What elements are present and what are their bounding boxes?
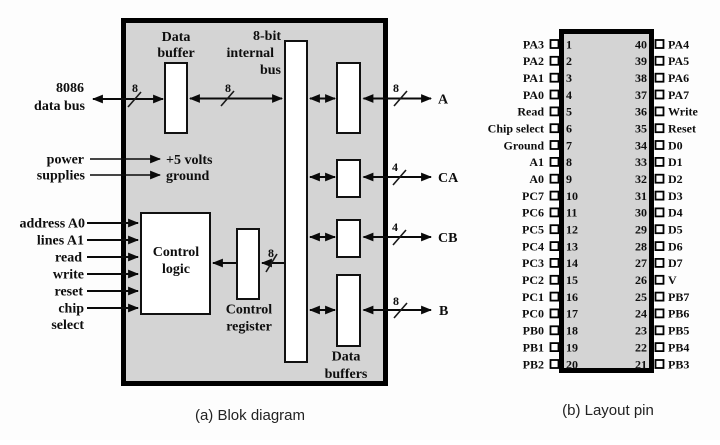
svg-text:3: 3 [566,71,572,85]
pin 16 (PC1) left side [522,290,578,304]
pin 34 (D0) right side [635,138,683,152]
svg-text:(b) Layout pin: (b) Layout pin [562,402,654,419]
wire: address A0 input arrow [87,222,138,224]
pin 32 (D2) right side [635,172,683,186]
svg-text:PA4: PA4 [668,37,689,51]
svg-text:address A0: address A0 [20,217,85,232]
port CB buffer box [337,220,360,257]
label: 8086 data bus [34,81,86,114]
svg-text:5: 5 [566,105,572,119]
svg-text:Chip select: Chip select [488,122,544,136]
wire: data buffer to internal bus (double arrow) [190,98,282,100]
pin 3 (PA1) left side [523,71,572,85]
svg-text:chip: chip [58,302,84,317]
svg-text:8: 8 [393,81,399,95]
svg-text:12: 12 [566,223,578,237]
svg-text:PB4: PB4 [668,340,689,354]
svg-text:8086: 8086 [56,81,84,96]
svg-text:PC6: PC6 [522,206,544,220]
svg-text:Control: Control [153,245,200,260]
svg-text:Data: Data [332,350,361,365]
data buffer box [165,63,187,133]
svg-text:PA0: PA0 [523,88,544,102]
pin 39 (PA5) right side [635,54,689,68]
svg-text:V: V [668,273,677,287]
svg-text:34: 34 [635,138,647,152]
svg-text:1: 1 [566,37,572,51]
port CA buffer box [337,160,360,197]
svg-text:20: 20 [566,357,578,371]
pin 4 (PA0) left side [523,88,572,102]
bus-width slash 8 (8086 side) [128,81,141,107]
svg-text:24: 24 [635,307,647,321]
pin 15 (PC2) left side [522,273,578,287]
svg-text:PB3: PB3 [668,357,689,371]
svg-text:CB: CB [438,231,457,246]
svg-text:Read: Read [517,105,544,119]
svg-text:D0: D0 [668,138,683,152]
control register box [237,229,259,299]
svg-text:8: 8 [393,294,399,308]
svg-text:PA3: PA3 [523,37,544,51]
svg-text:8-bit: 8-bit [253,29,281,44]
svg-text:data bus: data bus [34,99,86,114]
svg-text:PC2: PC2 [522,273,544,287]
svg-text:buffers: buffers [325,367,368,382]
svg-text:4: 4 [392,220,398,234]
pin 35 (Reset) right side [635,122,696,136]
svg-text:PA7: PA7 [668,88,689,102]
svg-text:31: 31 [635,189,647,203]
svg-text:PB1: PB1 [523,340,544,354]
svg-text:PA1: PA1 [523,71,544,85]
bus-width slash 8 (port B) [393,294,407,318]
svg-text:15: 15 [566,273,578,287]
svg-text:register: register [226,320,272,335]
svg-text:10: 10 [566,189,578,203]
svg-text:D6: D6 [668,239,683,253]
svg-text:PA5: PA5 [668,54,689,68]
svg-text:8: 8 [566,155,572,169]
wire: port CB output arrow [364,236,432,238]
svg-text:CA: CA [438,171,459,186]
wire: +5 volts arrow [90,158,160,160]
svg-text:write: write [53,268,84,283]
svg-text:PC0: PC0 [522,307,544,321]
svg-text:D2: D2 [668,172,683,186]
svg-text:26: 26 [635,273,647,287]
port B buffer box [337,275,360,346]
pin 11 (PC6) left side [522,206,577,220]
wire: internal bus to CA buffer (double arrow) [310,176,335,178]
pin 2 (PA2) left side [523,54,572,68]
svg-text:A0: A0 [529,172,544,186]
svg-text:21: 21 [635,357,647,371]
pin 19 (PB1) left side [523,340,578,354]
label: Control register [226,303,273,335]
pin 28 (D6) right side [635,239,683,253]
pin 5 (Read) left side [517,105,572,119]
svg-text:17: 17 [566,307,578,321]
svg-text:Control: Control [226,303,273,318]
chip body (pin layout) [562,32,652,371]
pin 25 (PB7) right side [635,290,689,304]
pin 30 (D4) right side [635,206,683,220]
svg-text:logic: logic [162,262,190,277]
svg-text:8: 8 [225,81,231,95]
svg-text:internal: internal [227,46,275,61]
svg-text:reset: reset [55,285,84,300]
pin 14 (PC3) left side [522,256,578,270]
wire: reset input arrow [87,290,138,292]
svg-text:30: 30 [635,206,647,220]
svg-text:bus: bus [260,63,282,78]
8-bit internal bus box [285,41,307,362]
wire: 8086 data bus to data buffer (double arrow) [93,98,163,100]
svg-text:33: 33 [635,155,647,169]
label: Data buffer [157,30,194,61]
pin 38 (PA6) right side [635,71,689,85]
pin 27 (D7) right side [635,256,683,270]
svg-text:4: 4 [566,88,572,102]
wire: lines A1 input arrow [87,239,138,241]
pin 1 (PA3) left side [523,37,572,51]
svg-text:power: power [47,153,84,168]
svg-text:+5 volts: +5 volts [166,153,213,168]
pin 37 (PA7) right side [635,88,689,102]
svg-text:PC1: PC1 [522,290,544,304]
svg-text:8: 8 [132,81,138,95]
outer block-diagram box [124,21,386,384]
wire: internal bus to port B buffer (double arrow) [310,309,335,311]
wire: read input arrow [87,256,138,258]
svg-text:Write: Write [668,105,698,119]
svg-text:PA6: PA6 [668,71,689,85]
pin 6 (Chip select) left side [488,122,572,136]
svg-text:22: 22 [635,340,647,354]
pin 8 (A1) left side [529,155,572,169]
wire: internal bus to control register [262,262,284,264]
wire: internal bus to CB buffer (double arrow) [310,236,335,238]
label: power supplies [37,153,86,184]
svg-text:PB0: PB0 [523,324,544,338]
svg-text:16: 16 [566,290,578,304]
svg-text:(a) Blok diagram: (a) Blok diagram [195,407,305,424]
svg-text:A1: A1 [529,155,544,169]
label: 8-bit internal bus [227,29,282,78]
svg-text:D1: D1 [668,155,683,169]
pin 22 (PB4) right side [635,340,689,354]
pin 40 (PA4) right side [635,37,689,51]
pin 13 (PC4) left side [522,239,578,253]
svg-text:11: 11 [566,206,577,220]
svg-text:PA2: PA2 [523,54,544,68]
svg-text:25: 25 [635,290,647,304]
svg-text:29: 29 [635,223,647,237]
wire: port CA output arrow [364,176,432,178]
svg-text:Ground: Ground [504,138,545,152]
svg-text:supplies: supplies [37,169,86,184]
pin 23 (PB5) right side [635,324,689,338]
svg-text:40: 40 [635,37,647,51]
svg-text:23: 23 [635,324,647,338]
svg-text:9: 9 [566,172,572,186]
bus-width slash 8 (buffer side) [221,81,234,106]
pin 7 (Ground) left side [504,138,572,152]
label: Control logic [153,245,200,277]
port A buffer box [337,63,360,133]
bus-width slash 4 (port CA) [392,160,406,185]
svg-text:36: 36 [635,105,647,119]
svg-text:6: 6 [566,122,572,136]
pin 17 (PC0) left side [522,307,578,321]
svg-text:4: 4 [392,160,398,174]
svg-text:D5: D5 [668,223,683,237]
svg-text:B: B [439,304,448,319]
svg-text:37: 37 [635,88,647,102]
svg-text:32: 32 [635,172,647,186]
svg-text:27: 27 [635,256,647,270]
wire: internal bus to port A buffer (double arrow) [310,98,335,100]
control logic box [141,213,210,314]
svg-text:Data: Data [162,30,191,45]
bus-width slash 4 (port CB) [392,220,406,245]
svg-text:38: 38 [635,71,647,85]
svg-text:PC7: PC7 [522,189,544,203]
svg-text:PC4: PC4 [522,239,544,253]
svg-text:PB2: PB2 [523,357,544,371]
label: chip select [51,302,84,334]
svg-text:select: select [51,318,84,333]
svg-text:PC5: PC5 [522,223,544,237]
wire: ground arrow [90,174,160,176]
pin 9 (A0) left side [529,172,572,186]
svg-text:13: 13 [566,239,578,253]
wire: chip select input arrow [87,307,138,309]
svg-text:39: 39 [635,54,647,68]
svg-text:PB7: PB7 [668,290,689,304]
svg-text:7: 7 [566,138,572,152]
pin 12 (PC5) left side [522,223,578,237]
svg-text:lines A1: lines A1 [37,234,84,249]
pin 33 (D1) right side [635,155,683,169]
svg-text:14: 14 [566,256,578,270]
pin 29 (D5) right side [635,223,683,237]
svg-text:PB5: PB5 [668,324,689,338]
pin 10 (PC7) left side [522,189,578,203]
wire: control register to control logic [213,262,236,264]
wire: write input arrow [87,273,138,275]
pin 21 (PB3) right side [635,357,689,371]
pin 20 (PB2) left side [523,357,578,371]
svg-text:28: 28 [635,239,647,253]
pin 26 (V) right side [635,273,677,287]
svg-text:ground: ground [166,169,210,184]
pin 24 (PB6) right side [635,307,689,321]
pin 36 (Write) right side [635,105,698,119]
svg-text:2: 2 [566,54,572,68]
svg-text:D3: D3 [668,189,683,203]
wire: port A output arrow [364,98,432,100]
svg-text:8: 8 [268,246,274,260]
svg-text:A: A [438,93,449,108]
bus-width slash 8 (control register side) [266,246,277,272]
svg-text:19: 19 [566,340,578,354]
svg-text:D4: D4 [668,206,683,220]
label: Data buffers [325,350,368,383]
pin 18 (PB0) left side [523,324,578,338]
svg-text:read: read [55,251,82,266]
svg-text:PB6: PB6 [668,307,689,321]
pin 31 (D3) right side [635,189,683,203]
bus-width slash 8 (port A) [393,81,407,106]
svg-text:buffer: buffer [157,46,194,61]
wire: port B output arrow [364,309,432,311]
svg-text:PC3: PC3 [522,256,544,270]
svg-text:35: 35 [635,122,647,136]
svg-text:18: 18 [566,324,578,338]
svg-text:Reset: Reset [668,122,696,136]
svg-text:D7: D7 [668,256,683,270]
